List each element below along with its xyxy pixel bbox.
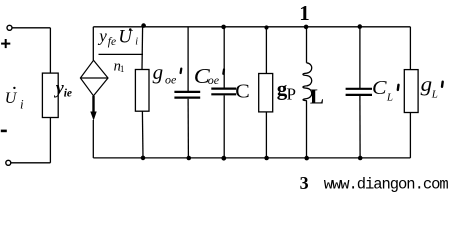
wire top-left horizontal — [12, 27, 50, 29]
wire g_L branch top — [409, 27, 411, 70]
svg-text:L: L — [386, 92, 393, 104]
svg-text:oe: oe — [208, 73, 220, 87]
capacitor C_L plates — [346, 89, 372, 95]
svg-text:U: U — [5, 90, 18, 107]
svg-text:1: 1 — [299, 1, 310, 25]
plus sign — [1, 39, 10, 48]
junction dot bottom g_P — [264, 156, 269, 161]
svg-text:g: g — [421, 74, 433, 96]
source arrowhead — [90, 112, 96, 121]
inductor L coil — [303, 63, 312, 101]
diamond middle line — [80, 77, 108, 79]
svg-text:P: P — [287, 85, 296, 104]
bottom rail node 3 — [93, 157, 410, 159]
svg-text:L: L — [310, 85, 324, 109]
dot over U in y_fe label — [129, 28, 132, 31]
terminal bottom-left — [6, 160, 11, 165]
label underline of y_fe Ui — [99, 53, 144, 55]
junction dot top C_L — [358, 24, 363, 29]
svg-text:y: y — [97, 27, 107, 46]
junction dot top L node 1 — [304, 25, 309, 30]
top rail node 1 — [93, 26, 410, 28]
wire C branch top — [223, 27, 225, 88]
wire left branch upper vertical — [49, 28, 51, 73]
junction dot top C — [221, 25, 226, 30]
wire C_L branch top — [359, 27, 361, 88]
wire source branch bottom — [92, 120, 94, 158]
minus sign — [1, 130, 7, 133]
svg-text:oe: oe — [165, 72, 177, 86]
junction dot bottom C_L — [358, 156, 363, 161]
junction dot bottom C — [221, 156, 226, 161]
svg-text:1: 1 — [120, 64, 125, 74]
wire left branch lower vertical — [49, 118, 51, 163]
junction dot bottom g_oe — [141, 156, 146, 161]
resistor y_ie box — [42, 73, 58, 117]
wire g_oe branch bottom — [141, 111, 144, 158]
wire L branch top — [306, 27, 308, 63]
wire source branch top — [92, 27, 94, 61]
terminal top-left — [7, 25, 12, 30]
apostrophe of g_oe' — [180, 69, 183, 73]
wire L branch bottom — [306, 101, 308, 158]
svg-text:g: g — [153, 62, 164, 84]
resistor g_oe box — [135, 70, 149, 112]
wire C_oe branch top — [187, 27, 189, 91]
svg-text:www.diangon.com: www.diangon.com — [324, 175, 449, 193]
wire C branch bottom — [223, 95, 225, 157]
wire C_oe branch bottom — [187, 99, 189, 158]
resistor g_L box — [404, 70, 418, 113]
junction dot bottom L — [304, 156, 309, 161]
svg-text:C: C — [372, 77, 387, 99]
capacitor C plates — [211, 89, 236, 95]
junction dot top g_P — [264, 25, 268, 29]
capacitor C_oe plates — [174, 92, 200, 98]
source arrow shaft — [92, 96, 94, 113]
wire C_L branch bottom — [359, 96, 361, 158]
apostrophe of C_oe' — [222, 69, 225, 73]
svg-text:fe: fe — [108, 36, 116, 48]
apostrophe of g_L' — [441, 82, 444, 87]
wire g_P branch top — [265, 27, 267, 74]
wire g_L branch bottom — [409, 113, 411, 158]
dot over U_i input label — [13, 87, 15, 89]
svg-text:L: L — [431, 88, 438, 100]
junction dot top g_oe — [141, 23, 146, 28]
junction dot bottom C_oe — [187, 156, 192, 161]
svg-text:3: 3 — [300, 173, 309, 193]
wire g_P branch bottom — [265, 112, 267, 158]
apostrophe of C_L' — [397, 85, 400, 90]
wire bottom-left horizontal — [11, 162, 51, 164]
svg-text:i: i — [135, 37, 138, 48]
controlled source diamond — [80, 60, 108, 96]
wire g_oe branch top — [141, 27, 144, 70]
svg-text:ie: ie — [64, 87, 72, 99]
svg-text:U: U — [118, 26, 133, 47]
svg-text:i: i — [20, 97, 24, 112]
svg-text:C: C — [235, 80, 250, 102]
resistor g_P box — [259, 74, 273, 112]
